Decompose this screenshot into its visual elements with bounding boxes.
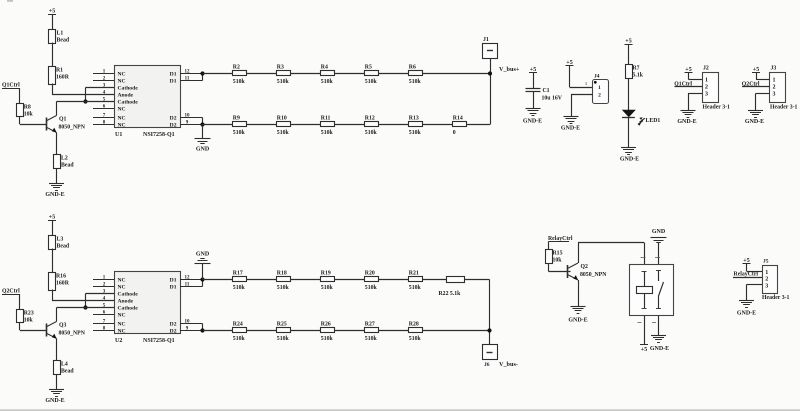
svg-text:510k: 510k bbox=[233, 336, 246, 342]
svg-text:510k: 510k bbox=[233, 130, 246, 136]
svg-text:Q2: Q2 bbox=[581, 264, 589, 270]
svg-text:NC: NC bbox=[118, 278, 126, 284]
svg-text:1: 1 bbox=[598, 85, 601, 91]
svg-text:GND-E: GND-E bbox=[650, 346, 669, 352]
svg-text:GND: GND bbox=[196, 252, 210, 258]
svg-text:510k: 510k bbox=[321, 336, 334, 342]
svg-text:+5: +5 bbox=[625, 39, 631, 45]
svg-text:R24: R24 bbox=[233, 321, 243, 327]
svg-text:GND-E: GND-E bbox=[561, 126, 580, 132]
svg-text:NC: NC bbox=[118, 313, 126, 319]
svg-text:Q1: Q1 bbox=[59, 117, 67, 123]
svg-text:10u 16V: 10u 16V bbox=[542, 96, 563, 102]
svg-text:R14: R14 bbox=[453, 115, 463, 121]
svg-text:2: 2 bbox=[773, 85, 776, 91]
svg-text:NC: NC bbox=[118, 123, 126, 129]
svg-text:10k: 10k bbox=[553, 258, 563, 264]
svg-text:J6: J6 bbox=[484, 362, 490, 368]
svg-text:D2: D2 bbox=[170, 123, 177, 129]
svg-text:10: 10 bbox=[185, 319, 191, 324]
svg-text:R13: R13 bbox=[409, 115, 419, 121]
svg-text:8050_NPN: 8050_NPN bbox=[580, 272, 607, 278]
svg-text:J2: J2 bbox=[703, 66, 709, 72]
svg-text:10k: 10k bbox=[24, 318, 34, 324]
svg-text:R6: R6 bbox=[409, 64, 416, 70]
svg-text:J3: J3 bbox=[771, 66, 777, 72]
svg-text:GND: GND bbox=[652, 229, 666, 235]
svg-text:3: 3 bbox=[765, 283, 768, 289]
svg-text:510k: 510k bbox=[365, 130, 378, 136]
svg-text:Q1Ctrl: Q1Ctrl bbox=[2, 83, 20, 89]
svg-text:2: 2 bbox=[598, 93, 601, 99]
svg-text:R7: R7 bbox=[633, 66, 640, 72]
svg-text:Bead: Bead bbox=[61, 163, 74, 169]
svg-text:0: 0 bbox=[453, 130, 456, 136]
svg-text:10k: 10k bbox=[24, 112, 34, 118]
svg-text:510k: 510k bbox=[277, 285, 290, 291]
svg-text:R1: R1 bbox=[56, 68, 63, 74]
svg-text:Cathode: Cathode bbox=[118, 292, 139, 298]
svg-text:NC: NC bbox=[118, 72, 126, 78]
svg-text:R21: R21 bbox=[409, 270, 419, 276]
svg-text:R17: R17 bbox=[233, 270, 243, 276]
svg-text:510k: 510k bbox=[277, 336, 290, 342]
svg-text:8050_NPN: 8050_NPN bbox=[59, 331, 86, 337]
svg-text:GND-E: GND-E bbox=[523, 119, 542, 125]
svg-text:12: 12 bbox=[185, 69, 191, 74]
svg-text:Anode: Anode bbox=[118, 299, 134, 305]
svg-text:+5: +5 bbox=[641, 347, 647, 353]
svg-text:R23: R23 bbox=[24, 311, 34, 317]
svg-text:Q3: Q3 bbox=[59, 323, 67, 329]
svg-text:D1: D1 bbox=[170, 285, 177, 291]
svg-text:GND: GND bbox=[196, 147, 210, 153]
svg-text:11: 11 bbox=[185, 76, 190, 81]
svg-text:2: 2 bbox=[765, 277, 768, 283]
svg-text:510k: 510k bbox=[321, 79, 334, 85]
svg-text:J4: J4 bbox=[594, 74, 600, 80]
svg-text:510k: 510k bbox=[277, 79, 290, 85]
svg-text:U1: U1 bbox=[115, 132, 122, 138]
svg-text:RelayCtrl: RelayCtrl bbox=[734, 272, 759, 278]
svg-text:L2: L2 bbox=[61, 156, 68, 162]
svg-text:L4: L4 bbox=[61, 362, 68, 368]
svg-text:GND-E: GND-E bbox=[568, 318, 587, 324]
svg-text:R8: R8 bbox=[24, 105, 31, 111]
svg-text:R19: R19 bbox=[321, 270, 331, 276]
svg-text:510k: 510k bbox=[409, 336, 422, 342]
svg-text:NC: NC bbox=[118, 322, 126, 328]
svg-text:2: 2 bbox=[705, 85, 708, 91]
svg-text:D1: D1 bbox=[170, 72, 177, 78]
svg-text:+5: +5 bbox=[49, 9, 55, 15]
svg-text:1: 1 bbox=[773, 78, 776, 84]
svg-text:R12: R12 bbox=[365, 115, 375, 121]
svg-text:R9: R9 bbox=[233, 115, 240, 121]
svg-text:LED1: LED1 bbox=[646, 118, 661, 124]
svg-text:L1: L1 bbox=[57, 31, 64, 37]
svg-text:NSI7258-Q1: NSI7258-Q1 bbox=[143, 132, 175, 138]
svg-text:U2: U2 bbox=[115, 338, 122, 344]
svg-text:510k: 510k bbox=[233, 79, 246, 85]
svg-text:GND-E: GND-E bbox=[45, 192, 64, 198]
svg-text:1: 1 bbox=[765, 270, 768, 276]
svg-text:GND-E: GND-E bbox=[745, 119, 764, 125]
svg-text:1: 1 bbox=[585, 81, 587, 86]
svg-text:GND-E: GND-E bbox=[737, 311, 756, 317]
svg-text:Bead: Bead bbox=[57, 244, 70, 250]
svg-text:R22 5.1k: R22 5.1k bbox=[439, 291, 462, 297]
svg-text:Header 3-1: Header 3-1 bbox=[762, 295, 790, 301]
svg-text:D2: D2 bbox=[170, 322, 177, 328]
svg-text:GND-E: GND-E bbox=[45, 398, 64, 404]
svg-text:8050_NPN: 8050_NPN bbox=[59, 125, 86, 131]
svg-text:D1: D1 bbox=[170, 278, 177, 284]
svg-text:R18: R18 bbox=[277, 270, 287, 276]
svg-text:R27: R27 bbox=[365, 321, 375, 327]
svg-text:R2: R2 bbox=[233, 64, 240, 70]
svg-text:GND-E: GND-E bbox=[677, 119, 696, 125]
svg-text:Header 3-1: Header 3-1 bbox=[770, 105, 798, 111]
svg-text:510k: 510k bbox=[277, 130, 290, 136]
svg-text:160R: 160R bbox=[56, 281, 70, 287]
svg-text:D2: D2 bbox=[170, 116, 177, 122]
svg-text:510k: 510k bbox=[409, 285, 422, 291]
svg-text:Anode: Anode bbox=[118, 93, 134, 99]
svg-text:NC: NC bbox=[118, 285, 126, 291]
svg-text:510k: 510k bbox=[233, 285, 246, 291]
svg-text:3: 3 bbox=[773, 92, 776, 98]
svg-text:V_bus-: V_bus- bbox=[499, 361, 518, 368]
svg-text:Bead: Bead bbox=[57, 38, 70, 44]
svg-text:NC: NC bbox=[118, 79, 126, 85]
svg-text:R28: R28 bbox=[409, 321, 419, 327]
svg-text:10: 10 bbox=[185, 113, 191, 118]
svg-text:J5: J5 bbox=[763, 259, 769, 265]
svg-text:NC: NC bbox=[118, 107, 126, 113]
svg-text:1: 1 bbox=[705, 78, 708, 84]
svg-text:V_bus+: V_bus+ bbox=[499, 66, 520, 73]
svg-text:Header 3-1: Header 3-1 bbox=[703, 105, 731, 111]
svg-text:510k: 510k bbox=[321, 130, 334, 136]
svg-text:D1: D1 bbox=[170, 79, 177, 85]
svg-text:12: 12 bbox=[185, 275, 191, 280]
svg-text:510k: 510k bbox=[409, 130, 422, 136]
svg-text:C1: C1 bbox=[543, 88, 550, 94]
svg-text:R11: R11 bbox=[321, 115, 331, 121]
svg-text:+5: +5 bbox=[49, 215, 55, 221]
svg-text:R26: R26 bbox=[321, 321, 331, 327]
svg-text:NSI7258-Q1: NSI7258-Q1 bbox=[143, 338, 175, 344]
svg-text:Bead: Bead bbox=[61, 369, 74, 375]
svg-text:GND-E: GND-E bbox=[620, 157, 639, 163]
svg-text:L3: L3 bbox=[57, 237, 64, 243]
svg-text:510k: 510k bbox=[365, 79, 378, 85]
svg-text:510k: 510k bbox=[365, 336, 378, 342]
svg-text:3: 3 bbox=[705, 92, 708, 98]
svg-text:R25: R25 bbox=[277, 321, 287, 327]
svg-text:J1: J1 bbox=[483, 37, 489, 43]
svg-text:510k: 510k bbox=[409, 79, 422, 85]
svg-text:Q2Ctrl: Q2Ctrl bbox=[2, 289, 20, 295]
svg-text:Cathode: Cathode bbox=[118, 306, 139, 312]
svg-text:11: 11 bbox=[185, 282, 190, 287]
svg-text:R10: R10 bbox=[277, 115, 287, 121]
svg-text:510k: 510k bbox=[365, 285, 378, 291]
svg-text:NC: NC bbox=[118, 329, 126, 335]
svg-text:NC: NC bbox=[118, 116, 126, 122]
svg-text:Cathode: Cathode bbox=[118, 100, 139, 106]
svg-text:R15: R15 bbox=[553, 251, 563, 257]
svg-text:R5: R5 bbox=[365, 64, 372, 70]
svg-text:160R: 160R bbox=[56, 75, 70, 81]
svg-text:510k: 510k bbox=[321, 285, 334, 291]
svg-text:R20: R20 bbox=[365, 270, 375, 276]
svg-text:R4: R4 bbox=[321, 64, 328, 70]
svg-text:R3: R3 bbox=[277, 64, 284, 70]
svg-text:R16: R16 bbox=[56, 274, 66, 280]
svg-text:D2: D2 bbox=[170, 329, 177, 335]
svg-text:Cathode: Cathode bbox=[118, 86, 139, 92]
svg-text:5.1k: 5.1k bbox=[633, 73, 644, 79]
